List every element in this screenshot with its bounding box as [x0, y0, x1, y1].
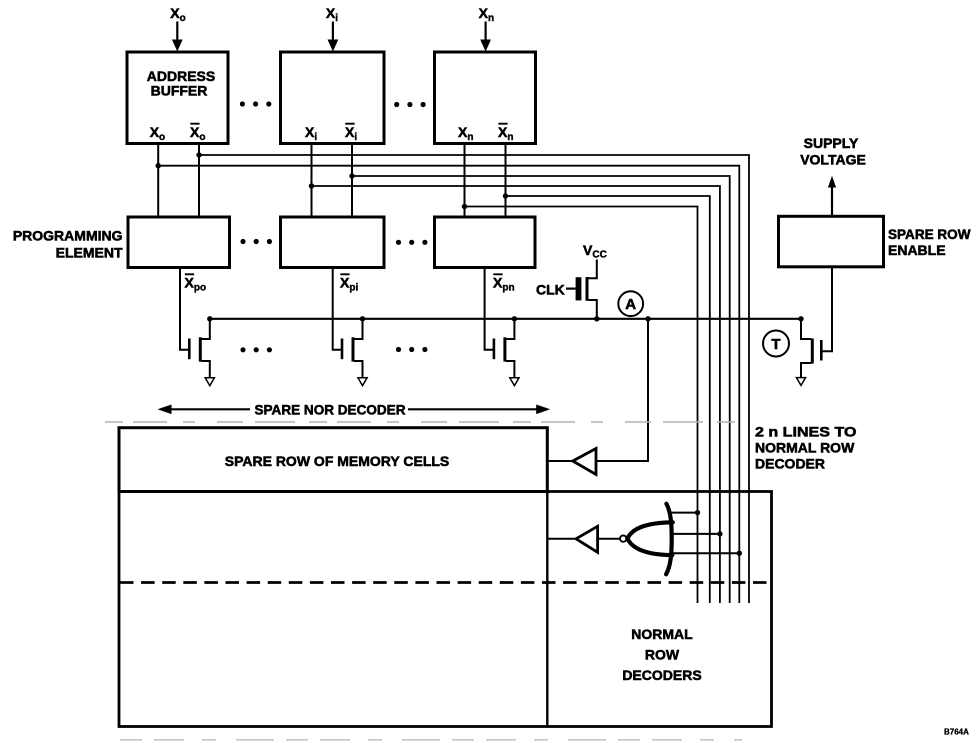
- label NORMAL ROW DECODERS: [622, 626, 701, 683]
- node junction Xi-bar bus tap: [349, 173, 354, 178]
- node junction Xi bus tap: [309, 183, 314, 188]
- wire divider between memory cells and row decoders: [546, 492, 548, 727]
- svg-text:NORMAL: NORMAL: [631, 626, 693, 642]
- pin label Xi: [305, 124, 317, 143]
- pin label Xi-bar: [345, 124, 357, 144]
- inverter U4 (spare row driver): [573, 449, 596, 475]
- XNOR gate U6 output bubble: [620, 535, 626, 541]
- svg-text:T: T: [771, 336, 780, 353]
- wire node A down to spare row inverter: [596, 319, 648, 461]
- node junction Xo-bar bus tap: [196, 152, 201, 157]
- transistor Q3 (spare NOR decoder): [494, 319, 515, 378]
- label Xpo-bar: [185, 274, 207, 293]
- node junction Q1 drain on node A line: [207, 316, 212, 321]
- wire XNOR input 1: [670, 512, 698, 514]
- ellipsis dots between programming elements 1-2: [240, 239, 272, 244]
- programming element PE1: [128, 217, 230, 268]
- scan artifact row under spare nor decoder: [105, 421, 745, 423]
- wire node A horizontal line: [210, 318, 801, 320]
- svg-text:VOLTAGE: VOLTAGE: [800, 152, 866, 168]
- svg-text:NORMAL ROW: NORMAL ROW: [755, 440, 855, 456]
- label SUPPLY VOLTAGE: [800, 135, 866, 168]
- svg-text:PROGRAMMING: PROGRAMMING: [13, 228, 123, 244]
- label Xpi-bar: [340, 274, 358, 293]
- node junction Xo bus tap: [156, 163, 161, 168]
- wire Xi-bar from address buffer to programming element: [351, 144, 353, 218]
- ellipsis dots between address buffers 1-2: [240, 101, 272, 106]
- svg-text:DECODERS: DECODERS: [622, 667, 701, 683]
- node junction Xn-bar bus tap: [503, 193, 508, 198]
- address buffer U1: [127, 52, 228, 144]
- wire Xpo-bar from PE1 to Q1 gate: [180, 268, 189, 350]
- wire spare row enable to Q5 gate: [821, 267, 832, 351]
- node junction at x=648 on node A line: [645, 316, 650, 321]
- svg-text:SPARE ROW OF MEMORY CELLS: SPARE ROW OF MEMORY CELLS: [225, 453, 450, 469]
- ground for Q2: [358, 378, 367, 386]
- node A symbol: [618, 291, 643, 316]
- svg-text:2 n LINES TO: 2 n LINES TO: [755, 424, 857, 440]
- wire VCC to Q4 drain: [588, 260, 597, 279]
- ground for Q3: [510, 378, 519, 386]
- transistor Q1 (spare NOR decoder): [189, 319, 210, 378]
- address buffer U3: [435, 52, 536, 144]
- wire Xo-bar from address buffer to programming element: [198, 144, 200, 218]
- node junction Xn bus tap: [462, 204, 467, 209]
- wire Xo from address buffer to programming element: [157, 144, 159, 218]
- svg-text:ELEMENT: ELEMENT: [56, 245, 123, 261]
- label SPARE ROW ENABLE: [888, 226, 971, 258]
- node junction XNOR input 2 on bus: [717, 531, 722, 536]
- pin label Xn-bar: [498, 124, 513, 144]
- node junction XNOR input 1 on bus: [695, 510, 700, 515]
- wire CLK gate lead: [566, 288, 576, 290]
- svg-text:BUFFER: BUFFER: [151, 83, 208, 99]
- svg-text:SPARE NOR DECODER: SPARE NOR DECODER: [255, 402, 406, 418]
- wire Xpn-bar from PE3 to Q3 gate: [485, 268, 494, 350]
- wire inverter U4 output to spare row: [547, 460, 573, 462]
- svg-text:SUPPLY: SUPPLY: [804, 135, 859, 151]
- wire XNOR input 2: [670, 533, 720, 535]
- node T symbol: [763, 331, 789, 357]
- ellipsis dots between spare NOR transistors 2-3: [396, 347, 428, 352]
- wire input arrow Xo into address buffer: [172, 22, 183, 52]
- svg-text:ROW: ROW: [645, 647, 680, 663]
- label ADDRESS BUFFER: [147, 68, 215, 99]
- wire bus Xi line 4 to normal row decoder: [312, 186, 720, 603]
- svg-text:B764A: B764A: [944, 728, 969, 737]
- pin label Xo: [150, 124, 165, 143]
- svg-text:A: A: [625, 296, 636, 313]
- svg-text:ENABLE: ENABLE: [888, 242, 946, 258]
- XNOR gate U6 body: [627, 504, 672, 575]
- wire input arrow Xi into address buffer: [328, 22, 339, 52]
- svg-text:SPARE ROW: SPARE ROW: [888, 226, 971, 242]
- wire Xn-bar from address buffer to programming element: [505, 144, 507, 218]
- transistor Q5 (spare row enable pass): [801, 319, 821, 378]
- svg-text:CLK: CLK: [536, 282, 565, 298]
- dashed row boundary line: [120, 581, 771, 584]
- wire input arrow Xn into address buffer: [480, 22, 491, 52]
- wire Xn from address buffer to programming element: [464, 144, 466, 218]
- node junction node A line to Q5 drain: [798, 316, 803, 321]
- inverter U5 (normal row driver): [576, 526, 598, 552]
- spare row of memory cells band: [119, 428, 547, 492]
- wire inverter U5 to XNOR bubble: [598, 538, 620, 540]
- pin label Xn: [458, 124, 473, 143]
- transistor Q2 (spare NOR decoder): [342, 319, 363, 378]
- programming element PE3: [435, 217, 536, 268]
- wire bus Xi-bar line 3 to normal row decoder: [352, 176, 730, 603]
- label PROGRAMMING ELEMENT: [13, 228, 123, 261]
- wire Xpi-bar from PE2 to Q2 gate: [333, 268, 342, 350]
- wire Xi from address buffer to programming element: [311, 144, 313, 218]
- label 2n LINES TO NORMAL ROW DECODER: [755, 424, 857, 472]
- scan artifact row at bottom: [120, 739, 742, 741]
- ellipsis dots between spare NOR transistors 1-2: [240, 347, 272, 352]
- label Xpn-bar: [493, 274, 515, 293]
- wire row line to inverter U5: [547, 538, 576, 540]
- spare row enable box U7: [779, 216, 884, 266]
- ellipsis dots between address buffers 2-3: [394, 102, 426, 107]
- memory array / normal row decoders outer box: [119, 492, 772, 727]
- address buffer U2: [281, 52, 385, 144]
- ground for Q5: [796, 378, 805, 386]
- wire supply voltage arrow: [828, 176, 836, 217]
- svg-text:DECODER: DECODER: [755, 456, 825, 472]
- node junction XNOR input 3 on bus: [737, 551, 742, 556]
- label SPARE NOR DECODER with span arrows: [158, 402, 551, 418]
- wire bus Xo-bar line 1 to normal row decoder: [199, 155, 749, 603]
- transistor Q4 (CLK precharge): [576, 277, 597, 319]
- programming element PE2: [281, 217, 385, 268]
- ground for Q1: [205, 378, 214, 386]
- wire bus Xn-bar line 5 to normal row decoder: [506, 196, 710, 603]
- node junction Q2 drain on node A line: [360, 316, 365, 321]
- wire XNOR input 3: [670, 552, 740, 554]
- wire bus Xo line 2 to normal row decoder: [158, 166, 739, 603]
- ellipsis dots between programming elements 2-3: [396, 240, 428, 245]
- node junction Q4 source on node A line: [594, 316, 599, 321]
- wire bus Xn line 6 to normal row decoder: [465, 207, 698, 604]
- node junction Q3 drain on node A line: [512, 316, 517, 321]
- pin label Xo-bar: [190, 124, 205, 144]
